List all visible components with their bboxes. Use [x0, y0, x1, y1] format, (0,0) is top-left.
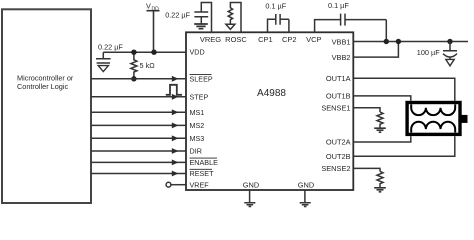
wire VBB2: [353, 42, 398, 58]
svg-text:0.22 µF: 0.22 µF: [98, 43, 123, 52]
motor winding 1 (top): [411, 104, 455, 115]
svg-text:VREG: VREG: [200, 35, 221, 44]
svg-text:V: V: [146, 1, 151, 10]
microcontroller label: [17, 74, 74, 92]
resistor R2 zigzag: [228, 8, 232, 24]
stepper motor body: [407, 103, 460, 135]
svg-text:0.1 µF: 0.1 µF: [265, 2, 286, 11]
svg-text:0.22 µF: 0.22 µF: [165, 11, 190, 20]
wire MS3: [91, 137, 186, 139]
resistor R4 sense2: [377, 171, 383, 187]
svg-text:Controller Logic: Controller Logic: [17, 82, 68, 91]
wire MS2: [91, 124, 186, 126]
svg-text:DIR: DIR: [190, 147, 202, 156]
junction dot R1/SLEEP: [131, 76, 136, 81]
resistor R2 at ROSC: riser: [230, 3, 241, 33]
svg-text:OUT2A: OUT2A: [326, 138, 351, 147]
ground GND pin left: [249, 190, 251, 203]
pulse waveform symbol: [166, 85, 182, 95]
svg-text:SLEEP: SLEEP: [190, 74, 213, 83]
ground for R3 (tapered): [374, 128, 386, 132]
resistor R3 sense1: [377, 112, 383, 128]
ground arrow below C1: [98, 66, 108, 72]
ground for C2 (tapered): [194, 24, 208, 29]
wire from VDD down to capacitor C1: [102, 52, 104, 59]
wire OUT2B: [353, 136, 455, 156]
wire VBB1: [353, 41, 468, 43]
pin label ENABLE with overline: [190, 158, 219, 167]
svg-text:MS3: MS3: [190, 134, 205, 143]
svg-text:RESET: RESET: [190, 169, 215, 178]
svg-text:0.1 µF: 0.1 µF: [328, 1, 349, 10]
svg-text:SENSE2: SENSE2: [321, 164, 350, 173]
ground arrow below R2: [226, 24, 235, 29]
svg-text:5 kΩ: 5 kΩ: [140, 61, 156, 70]
svg-text:DD: DD: [152, 6, 160, 12]
junction dot VDD supply: [151, 50, 156, 55]
svg-text:CP1: CP1: [258, 35, 273, 44]
ground GND pin right: [304, 190, 306, 203]
svg-text:VREF: VREF: [190, 181, 210, 190]
svg-text:GND: GND: [298, 181, 314, 190]
svg-text:VBB2: VBB2: [332, 53, 351, 62]
ground for R4 (tapered): [374, 188, 386, 192]
svg-text:MS2: MS2: [190, 121, 205, 130]
arrow DIR: [172, 148, 179, 154]
junction dot VBB2/VBB1: [396, 39, 401, 44]
wire RESET: [91, 173, 186, 175]
wire VREF: [171, 184, 186, 186]
svg-text:GND: GND: [243, 181, 259, 190]
chip A4988 box: [186, 32, 353, 190]
capacitor C2 0.22uF at VREG: riser and wiring: [201, 3, 211, 33]
wire SENSE1: [353, 108, 380, 112]
svg-text:ENABLE: ENABLE: [190, 158, 219, 167]
wire OUT2A: [353, 136, 411, 142]
svg-text:OUT1A: OUT1A: [326, 74, 351, 83]
wire SLEEP: [91, 78, 186, 80]
arrow STEP: [172, 94, 179, 100]
wire VDD: [103, 51, 186, 53]
VREF input terminal circle: [166, 182, 171, 187]
junction dot C5/VBB1: [447, 39, 452, 44]
pin label RESET with overline: [190, 169, 215, 178]
capacitor C5 100uF (polarized): [443, 42, 457, 60]
arrow ENABLE: [172, 160, 179, 166]
ground arrow below C5: [446, 59, 454, 65]
junction dot VDD/R1: [131, 50, 136, 55]
wire OUT1B: [353, 96, 411, 101]
svg-text:VDD: VDD: [190, 48, 205, 57]
svg-text:VCP: VCP: [306, 35, 321, 44]
junction dot C4/VBB1: [384, 39, 389, 44]
svg-text:OUT1B: OUT1B: [326, 92, 351, 101]
pin label SLEEP with overline: [190, 74, 213, 83]
arrow MS1: [172, 109, 179, 115]
arrow SLEEP: [172, 76, 179, 82]
wire MS1: [91, 111, 186, 113]
capacitor C2 plates: [194, 12, 208, 24]
capacitor C1 0.22uF plates: [96, 59, 111, 63]
svg-text:SENSE1: SENSE1: [321, 103, 350, 112]
resistor R1 5k: [131, 52, 137, 79]
svg-text:ROSC: ROSC: [225, 35, 247, 44]
arrow MS2: [172, 123, 179, 129]
svg-text:OUT2B: OUT2B: [326, 152, 351, 161]
capacitor C4 0.1uF between VCP and VBB: [315, 14, 387, 42]
motor winding 2 (bottom): [411, 122, 455, 133]
svg-text:VBB1: VBB1: [332, 37, 351, 46]
arrow RESET: [172, 171, 179, 177]
supply VDD terminal: [147, 11, 160, 53]
svg-text:MS1: MS1: [190, 108, 205, 117]
arrow MS3: [172, 135, 179, 141]
svg-text:STEP: STEP: [190, 92, 209, 101]
wire OUT1A: [353, 78, 455, 101]
wire ENABLE: [91, 161, 186, 163]
microcontroller box: [2, 9, 91, 203]
capacitor C3 0.1uF between CP1 and CP2: [268, 14, 289, 32]
svg-text:CP2: CP2: [282, 35, 297, 44]
svg-text:A4988: A4988: [257, 88, 286, 99]
wire STEP: [91, 96, 186, 98]
wire SENSE2: [353, 168, 380, 171]
svg-text:100 µF: 100 µF: [417, 48, 440, 57]
wire DIR: [91, 150, 186, 152]
motor shaft tab: [462, 115, 468, 123]
